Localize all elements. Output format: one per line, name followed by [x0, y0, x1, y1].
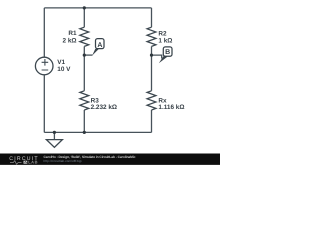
resistor R2: [147, 27, 156, 46]
junction node B: [150, 54, 153, 57]
svg-text:1.116 kΩ: 1.116 kΩ: [158, 104, 184, 111]
svg-text:1 kΩ: 1 kΩ: [158, 37, 172, 44]
svg-text:2.232 kΩ: 2.232 kΩ: [91, 104, 117, 111]
wire: left vertical from top to V1: [43, 8, 45, 57]
svg-text:LAB: LAB: [28, 160, 37, 165]
resistor Rx: [147, 91, 156, 110]
junction R3 bottom: [83, 131, 86, 134]
wire: left vertical from V1 to bottom: [43, 75, 45, 133]
node A flag: [84, 39, 104, 56]
wire: right branch between nodes: [151, 55, 153, 91]
svg-text:R2: R2: [158, 30, 167, 37]
ground: [46, 132, 62, 147]
wire: top horizontal net: [44, 7, 151, 9]
svg-text:B: B: [165, 49, 170, 56]
wire: R2 bottom stub to node B: [151, 46, 153, 55]
junction ground node: [53, 131, 56, 134]
resistor R1: [80, 27, 89, 46]
wire: R3 bottom stub: [83, 110, 85, 132]
wire: R1 bottom stub to node A: [83, 46, 85, 55]
svg-text:2 kΩ: 2 kΩ: [62, 37, 76, 44]
wire: middle branch between nodes: [83, 55, 85, 91]
wire: right branch top stub: [151, 8, 153, 27]
voltage source V1: [35, 57, 53, 75]
svg-text:A: A: [97, 42, 102, 49]
wire: bottom horizontal net: [44, 131, 151, 133]
footer bar: [0, 154, 220, 166]
svg-text:http://circuitlab.com/c8f4qp: http://circuitlab.com/c8f4qp: [44, 159, 82, 163]
wire: middle branch top stub: [83, 8, 85, 27]
junction top net: [83, 6, 86, 9]
resistor R3: [80, 91, 89, 110]
wire: Rx bottom stub: [151, 110, 153, 132]
svg-text:10 V: 10 V: [57, 66, 71, 73]
node B flag: [152, 47, 173, 63]
junction node A: [83, 54, 86, 57]
svg-text:R1: R1: [68, 30, 77, 37]
